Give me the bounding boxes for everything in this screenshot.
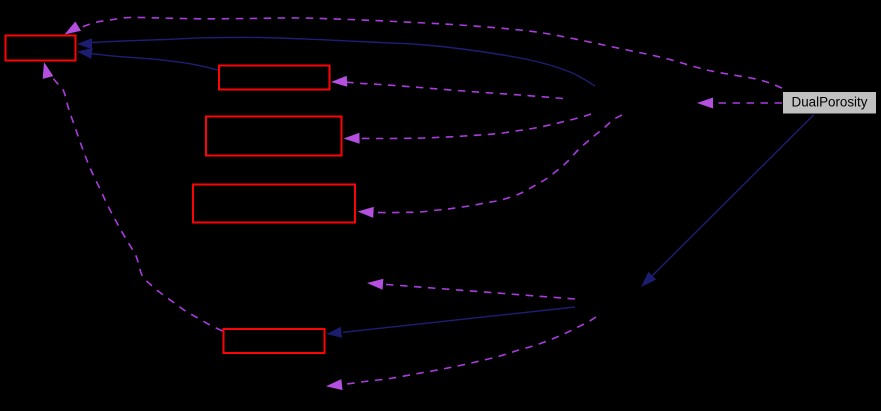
node box2 (red box, hidden black label) [219, 66, 330, 90]
arrowhead at box1 bottom [43, 62, 54, 79]
navy arrowhead at node2 top [641, 272, 656, 287]
node box1 (red box, hidden black label) [6, 36, 76, 61]
edge node1 to box3 (dashed) [360, 114, 592, 139]
node DualPorosity (grey, current class) [783, 92, 877, 115]
edge DualPorosity to box1 (dashed top arc) [78, 17, 782, 88]
edge node2 to hidden node3 (dashed) [383, 284, 575, 299]
node box4 (red box, hidden black label) [193, 185, 355, 223]
edge box2 to box1 (solid blue) [91, 54, 218, 70]
edge node1 to box4 (dashed) [374, 115, 623, 213]
floating arrowhead bottom [326, 379, 343, 390]
navy arrowhead at box1 right upper [77, 38, 92, 49]
floating arrowhead middle [367, 279, 383, 290]
arrowhead at box3 right [344, 133, 360, 144]
edge node2 to hidden node4 (dashed bottom arc) [343, 317, 596, 385]
navy arrowhead at box5 right [327, 327, 343, 338]
edge DualPorosity to hidden node1 (dashed horizontal) [713, 102, 782, 104]
node box5 (red box, hidden black label) [224, 329, 325, 353]
edge DualPorosity to hidden node2 (solid blue diagonal) [652, 115, 814, 277]
svg-text:DualPorosity: DualPorosity [792, 95, 868, 110]
navy arrowhead at box1 right lower [77, 48, 93, 59]
node box3 (red box, hidden black label) [206, 117, 342, 156]
edge node1 to box1 (solid blue arc) [92, 37, 595, 86]
edge box5 to box1 (dashed left arc) [52, 77, 223, 331]
arrowhead at box4 right [358, 207, 374, 218]
arrowhead at box2 right [331, 76, 347, 87]
edge node1 to box2 (dashed) [347, 82, 563, 98]
edge node2 to box5 (solid blue) [343, 307, 575, 332]
arrowhead at node1 right [697, 98, 713, 109]
arrowhead at box1 top [65, 22, 82, 35]
